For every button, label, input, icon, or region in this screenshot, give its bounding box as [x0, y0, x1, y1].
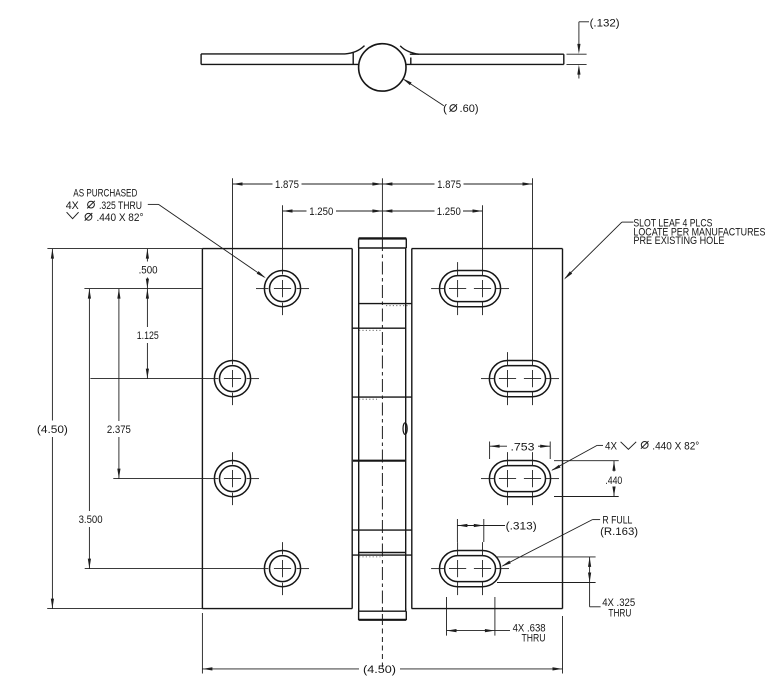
svg-text:.60): .60) [460, 103, 479, 115]
svg-text:1.875: 1.875 [437, 179, 461, 191]
svg-text:.440 X 82°: .440 X 82° [652, 440, 699, 452]
svg-text:(.313): (.313) [506, 521, 537, 533]
svg-text:(R.163): (R.163) [600, 526, 638, 538]
svg-text:1.125: 1.125 [137, 330, 159, 342]
svg-text:.440: .440 [605, 475, 622, 487]
svg-text:(: ( [443, 103, 447, 115]
svg-text:PRE EXISTING HOLE: PRE EXISTING HOLE [633, 235, 724, 247]
svg-text:.753: .753 [511, 441, 535, 453]
svg-text:2.375: 2.375 [107, 424, 131, 436]
svg-text:4X: 4X [66, 200, 79, 212]
svg-text:1.250: 1.250 [309, 206, 333, 218]
svg-text:(.132): (.132) [590, 17, 620, 29]
svg-text:.325 THRU: .325 THRU [99, 200, 142, 212]
svg-text:.500: .500 [139, 265, 158, 277]
svg-text:3.500: 3.500 [79, 514, 103, 526]
svg-text:4X: 4X [605, 440, 617, 452]
svg-text:(4.50): (4.50) [37, 424, 68, 436]
svg-text:THRU: THRU [608, 607, 631, 619]
svg-text:AS PURCHASED: AS PURCHASED [73, 188, 137, 200]
svg-text:(4.50): (4.50) [363, 664, 396, 676]
svg-text:1.250: 1.250 [437, 206, 461, 218]
svg-text:THRU: THRU [522, 633, 546, 645]
svg-text:1.875: 1.875 [275, 179, 299, 191]
svg-text:.440 X 82°: .440 X 82° [97, 212, 144, 224]
